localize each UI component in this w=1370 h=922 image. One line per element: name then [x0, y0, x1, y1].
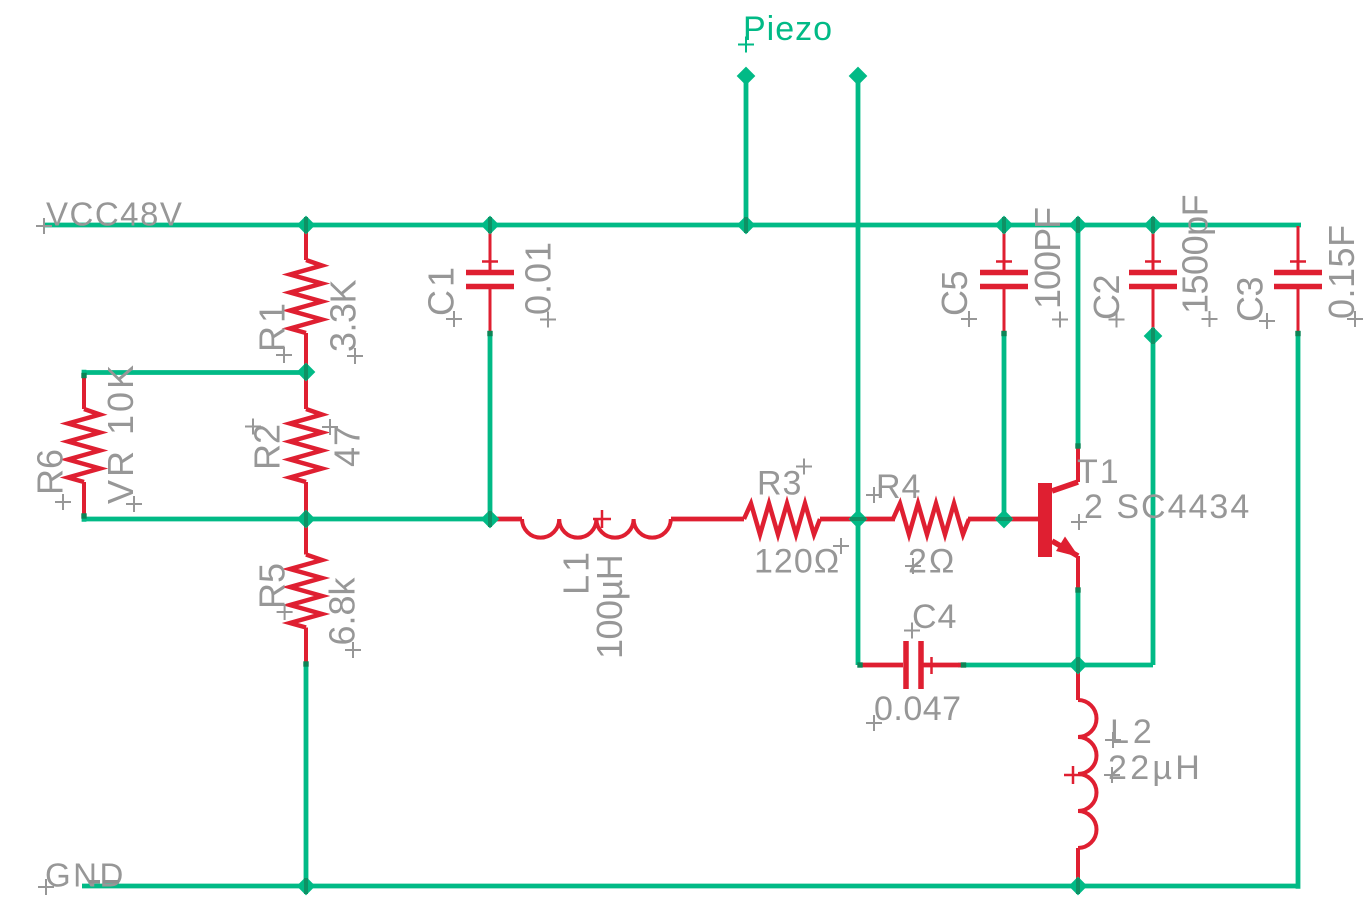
svg-text:L2: L2 [1110, 713, 1156, 751]
svg-text:3.3K: 3.3K [323, 279, 364, 352]
svg-text:0.15F: 0.15F [1321, 224, 1362, 319]
svg-text:6.8k: 6.8k [322, 576, 363, 645]
svg-text:VCC48V: VCC48V [46, 196, 183, 233]
svg-text:0.01: 0.01 [518, 241, 559, 315]
svg-text:47: 47 [327, 425, 368, 467]
svg-text:C4: C4 [912, 598, 957, 636]
svg-text:T1: T1 [1077, 453, 1121, 491]
svg-text:R5: R5 [252, 563, 293, 609]
svg-text:C5: C5 [934, 271, 975, 316]
svg-text:R2: R2 [247, 424, 288, 470]
svg-text:C1: C1 [421, 264, 462, 316]
svg-text:22µH: 22µH [1108, 749, 1203, 787]
svg-text:R4: R4 [876, 468, 921, 506]
svg-text:2Ω: 2Ω [908, 543, 956, 581]
svg-text:0.047: 0.047 [874, 690, 962, 728]
svg-text:C2: C2 [1086, 275, 1127, 320]
svg-text:2 SC4434: 2 SC4434 [1084, 488, 1251, 526]
svg-text:100µH: 100µH [589, 555, 630, 659]
svg-text:R1: R1 [252, 300, 293, 352]
svg-text:1500pF: 1500pF [1175, 195, 1216, 314]
svg-text:VR 10K: VR 10K [100, 362, 141, 504]
svg-text:GND: GND [45, 857, 126, 894]
svg-text:120Ω: 120Ω [754, 543, 840, 581]
svg-text:R6: R6 [30, 449, 71, 495]
svg-text:C3: C3 [1230, 277, 1271, 322]
svg-text:Piezo: Piezo [743, 10, 833, 48]
svg-text:100PF: 100PF [1027, 208, 1068, 309]
svg-text:R3: R3 [757, 465, 802, 503]
